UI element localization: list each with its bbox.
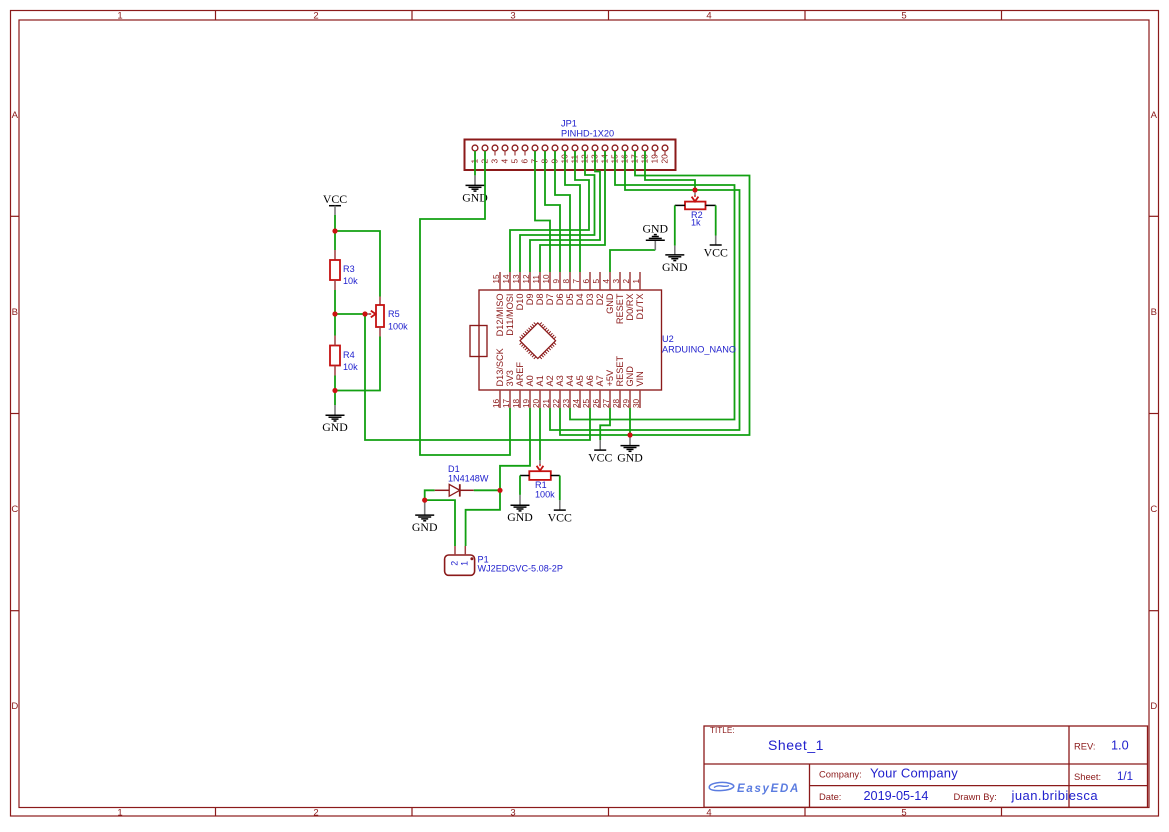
svg-text:6: 6	[582, 279, 591, 284]
svg-text:D1: D1	[448, 464, 460, 474]
svg-text:juan.bribiesca: juan.bribiesca	[1011, 788, 1099, 803]
svg-text:D11/MOSI: D11/MOSI	[505, 294, 515, 336]
U2 pin 18 AREF	[512, 362, 525, 408]
svg-text:A3: A3	[555, 375, 565, 386]
svg-text:8: 8	[562, 279, 571, 284]
connector P1 WJ2EDGVC-5.08-2P	[445, 546, 563, 575]
svg-text:100k: 100k	[535, 490, 555, 500]
svg-text:1N4148W: 1N4148W	[448, 474, 489, 484]
ground GND at R2	[662, 246, 688, 274]
wire VCC to R3	[334, 215, 336, 250]
junction node D R5 wiper	[362, 311, 367, 316]
U2 pin 1 D1/TX	[632, 272, 645, 320]
resistor R5 100k trimmer	[365, 297, 408, 337]
svg-text:D9: D9	[525, 294, 535, 306]
U2 pin 20 A1	[532, 375, 545, 408]
junction node E D1 cathode	[497, 488, 502, 493]
svg-text:Sheet:: Sheet:	[1074, 771, 1101, 782]
svg-text:4: 4	[602, 279, 611, 284]
svg-text:Sheet_1: Sheet_1	[768, 737, 824, 753]
U2 pin 3 RESET	[612, 272, 625, 324]
svg-text:WJ2EDGVC-5.08-2P: WJ2EDGVC-5.08-2P	[478, 564, 563, 574]
svg-text:1: 1	[117, 808, 122, 819]
EasyEDA logo	[709, 782, 800, 795]
wire JP1 pin14 to U2	[540, 151, 605, 272]
svg-text:27: 27	[602, 398, 611, 408]
U2 pin 11 D8	[532, 272, 545, 305]
U2 pin 10 D7	[542, 272, 555, 305]
wire U2 pin4 GND to ground	[610, 250, 655, 272]
svg-text:A: A	[1151, 110, 1158, 121]
JP1 pin 1	[470, 145, 480, 163]
wire R2 left to GND	[674, 205, 676, 245]
svg-text:15: 15	[492, 274, 501, 284]
svg-text:B: B	[1151, 307, 1157, 318]
svg-text:VCC: VCC	[704, 246, 728, 260]
wire R1 right to VCC	[559, 476, 561, 501]
svg-text:R5: R5	[388, 309, 400, 319]
svg-text:D4: D4	[575, 294, 585, 306]
wire R4 to GND	[334, 376, 336, 406]
resistor R1 100k trimmer	[520, 460, 560, 499]
svg-text:20: 20	[660, 154, 670, 164]
svg-text:2: 2	[622, 279, 631, 284]
U2 pin 6 D3	[582, 272, 595, 305]
ground GND at JP1 pin1	[462, 175, 488, 204]
svg-text:R4: R4	[343, 350, 355, 360]
svg-text:19: 19	[522, 398, 531, 408]
svg-text:6: 6	[520, 159, 530, 164]
wire JP1 pin15 to U2 pin23 A4	[570, 151, 735, 420]
wire JP1 pin17 to U2 pin22 A3	[560, 151, 750, 435]
wire JP1 pin11 to U2	[510, 151, 589, 272]
svg-text:10k: 10k	[343, 362, 358, 372]
svg-text:16: 16	[492, 398, 501, 408]
svg-text:3: 3	[490, 159, 500, 164]
svg-text:RESET: RESET	[615, 355, 625, 386]
wire D1 cathode to junction	[474, 489, 500, 491]
svg-text:5: 5	[592, 279, 601, 284]
U2 pin 12 D9	[522, 272, 535, 305]
svg-text:A7: A7	[595, 375, 605, 386]
svg-text:GND: GND	[605, 293, 615, 314]
power VCC top left	[323, 192, 347, 215]
svg-text:D0/RX: D0/RX	[625, 294, 635, 321]
svg-text:D3: D3	[585, 294, 595, 306]
svg-text:2: 2	[313, 808, 318, 819]
U2 pin 4 GND	[602, 272, 615, 314]
wire junction B to R5 wiper	[335, 313, 365, 315]
svg-text:A5: A5	[575, 375, 585, 386]
JP1 pin 17	[630, 145, 640, 163]
svg-text:R1: R1	[535, 480, 547, 490]
svg-text:2: 2	[313, 10, 318, 21]
U2 pin 22 A3	[552, 375, 565, 408]
U2 pin 30 VIN	[632, 371, 645, 408]
JP1 pin 19	[650, 145, 660, 163]
JP1 pin 11	[570, 145, 580, 163]
svg-text:3V3: 3V3	[505, 370, 515, 386]
ground GND at D1	[412, 500, 438, 534]
svg-text:9: 9	[552, 279, 561, 284]
wire JP1 pin10 to U2	[565, 151, 580, 272]
svg-text:5: 5	[510, 159, 520, 164]
svg-text:5: 5	[901, 10, 906, 21]
U2 chip diamond glyph	[520, 323, 556, 359]
svg-text:AREF: AREF	[515, 362, 525, 387]
JP1 pin 2	[480, 145, 490, 163]
wire R5 bottom to junction C	[335, 337, 380, 391]
JP1 pin 20	[660, 145, 670, 163]
svg-text:4: 4	[500, 159, 510, 164]
svg-text:18: 18	[512, 398, 521, 408]
svg-text:14: 14	[502, 274, 511, 284]
power VCC below U2	[588, 440, 612, 465]
svg-text:10k: 10k	[343, 276, 358, 286]
svg-text:U2: U2	[662, 334, 674, 344]
svg-text:C: C	[11, 504, 18, 515]
svg-text:D7: D7	[545, 294, 555, 306]
svg-text:GND: GND	[662, 260, 688, 274]
junction node B	[332, 311, 337, 316]
svg-text:D2: D2	[595, 294, 605, 306]
svg-text:D1/TX: D1/TX	[635, 294, 645, 320]
U2 pin 14 D11/MOSI	[502, 272, 515, 336]
svg-text:VCC: VCC	[588, 451, 612, 465]
svg-text:VCC: VCC	[548, 511, 572, 525]
U2 pin 16 D13/SCK	[492, 347, 505, 408]
svg-text:10: 10	[542, 274, 551, 284]
junction node A	[332, 228, 337, 233]
U2 pin 13 D10	[512, 272, 525, 310]
JP1 pin 4	[500, 145, 510, 163]
svg-text:A: A	[12, 110, 19, 121]
svg-text:D12/MISO: D12/MISO	[495, 294, 505, 337]
svg-text:2019-05-14: 2019-05-14	[864, 789, 929, 803]
svg-text:GND: GND	[322, 420, 348, 434]
svg-text:17: 17	[502, 398, 511, 408]
JP1 pin 8	[540, 145, 550, 163]
JP1 pin 12	[580, 145, 590, 163]
U2 pin 29 GND	[622, 366, 635, 408]
U2 pin 21 A2	[542, 375, 555, 408]
svg-text:13: 13	[512, 274, 521, 284]
wire U2 pin19 A0 to D1 junction	[500, 408, 530, 490]
svg-text:12: 12	[522, 274, 531, 284]
svg-text:1: 1	[117, 10, 122, 21]
svg-text:GND: GND	[643, 221, 669, 235]
svg-text:D10: D10	[515, 294, 525, 311]
svg-text:2: 2	[449, 561, 459, 566]
U2 pin 27 +5V	[602, 369, 615, 408]
resistor R4 10k	[330, 336, 358, 376]
JP1 pin 15	[610, 145, 620, 163]
svg-text:B: B	[12, 307, 18, 318]
ground GND at R1	[507, 495, 533, 524]
JP1 pin 10	[560, 145, 570, 163]
svg-text:D8: D8	[535, 294, 545, 306]
wire U2 pin20 A1 to R1 wiper	[539, 408, 541, 460]
svg-text:4: 4	[706, 808, 711, 819]
wire JP1 pin9 to U2	[555, 151, 570, 272]
svg-text:A6: A6	[585, 375, 595, 386]
svg-text:28: 28	[612, 398, 621, 408]
svg-text:R3: R3	[343, 264, 355, 274]
svg-text:1/1: 1/1	[1117, 771, 1133, 783]
svg-text:PINHD-1X20: PINHD-1X20	[561, 129, 614, 139]
svg-text:24: 24	[572, 398, 581, 408]
svg-text:29: 29	[622, 398, 631, 408]
wire JP1 pin1 to GND	[474, 151, 476, 175]
JP1 pin 14	[600, 145, 610, 163]
JP1 pin 16	[620, 145, 630, 163]
svg-text:23: 23	[562, 398, 571, 408]
wire JP1 pin16 to R2 wiper and U2 pin21 A2	[550, 151, 740, 430]
U2 pin 2 D0/RX	[622, 272, 635, 321]
svg-text:1: 1	[460, 561, 470, 566]
wire JP1 pin7 to U2	[535, 151, 550, 272]
svg-text:A1: A1	[535, 375, 545, 386]
wire junction A to R5 top	[335, 231, 380, 297]
svg-text:1k: 1k	[691, 218, 701, 228]
wire R1 left to GND	[519, 476, 521, 495]
svg-text:Company:: Company:	[819, 769, 862, 780]
svg-text:D: D	[11, 701, 18, 712]
wire JP1 pin12 to U2	[520, 151, 595, 272]
JP1 pin 5	[510, 145, 520, 163]
svg-text:Drawn By:: Drawn By:	[954, 791, 997, 802]
svg-text:3: 3	[510, 808, 515, 819]
svg-text:REV:: REV:	[1074, 741, 1096, 752]
svg-text:A0: A0	[525, 375, 535, 386]
U2 pin 28 RESET	[612, 355, 625, 408]
U2 pin 19 A0	[522, 375, 535, 408]
svg-text:21: 21	[542, 398, 551, 408]
svg-text:C: C	[1150, 504, 1157, 515]
svg-text:5: 5	[901, 808, 906, 819]
svg-text:VCC: VCC	[323, 192, 347, 206]
JP1 pin 9	[550, 145, 560, 163]
svg-text:EasyEDA: EasyEDA	[737, 783, 800, 795]
svg-text:TITLE:: TITLE:	[710, 726, 735, 735]
U2 pin 25 A6	[582, 375, 595, 408]
JP1 pin 7	[530, 145, 540, 163]
ground GND flipped at U2 pin4	[643, 221, 669, 250]
svg-text:1.0: 1.0	[1111, 739, 1129, 753]
U2 pin 9 D6	[552, 272, 565, 305]
svg-text:20: 20	[532, 398, 541, 408]
U2 pin 26 A7	[592, 375, 605, 408]
svg-text:3: 3	[612, 279, 621, 284]
wire junction D to U2 pin25 A6	[365, 314, 590, 440]
svg-text:1: 1	[632, 279, 641, 284]
svg-text:A2: A2	[545, 375, 555, 386]
wire JP1 pin2 to U2 pin17 3V3	[420, 151, 510, 455]
svg-text:D5: D5	[565, 294, 575, 306]
svg-text:100k: 100k	[388, 322, 408, 332]
svg-text:3: 3	[510, 10, 515, 21]
JP1 pin 13	[590, 145, 600, 163]
junction node C	[332, 388, 337, 393]
svg-text:GND: GND	[507, 510, 533, 524]
svg-text:+5V: +5V	[605, 369, 615, 386]
wire junction F to P1 pin2	[425, 500, 455, 546]
svg-text:D: D	[1150, 701, 1157, 712]
svg-text:A4: A4	[565, 375, 575, 386]
svg-text:4: 4	[706, 10, 711, 21]
JP1 pin 3	[490, 145, 500, 163]
svg-text:RESET: RESET	[615, 293, 625, 324]
wire R2 right to VCC	[715, 205, 717, 235]
svg-text:VIN: VIN	[635, 371, 645, 386]
wire junction E to P1 pin1	[466, 490, 500, 546]
wire U2 pin27 +5V to VCC	[600, 408, 610, 440]
U2 pin 23 A4	[562, 375, 575, 408]
ground GND bottom left	[322, 405, 348, 434]
wire U2 pin29 GND to ground junction	[629, 408, 631, 435]
wire D1 anode	[425, 490, 435, 500]
svg-text:19: 19	[650, 154, 660, 164]
U2 pin 17 3V3	[502, 370, 515, 408]
svg-text:D13/SCK: D13/SCK	[495, 347, 505, 386]
ground GND below U2	[617, 437, 643, 465]
JP1 pin 18	[640, 145, 650, 163]
junction node R2 wiper	[692, 187, 697, 192]
U2 pin 7 D4	[572, 272, 585, 305]
connector JP1 PINHD-1X20	[465, 119, 676, 171]
svg-text:Your Company: Your Company	[870, 766, 958, 781]
wire JP1 pin8 to U2	[545, 151, 560, 272]
title block	[704, 726, 1148, 807]
resistor R2 1k trimmer	[675, 193, 716, 228]
power VCC at R2	[704, 236, 728, 260]
junction node GND below U2	[627, 432, 632, 437]
svg-text:26: 26	[592, 398, 601, 408]
U2 pin 8 D5	[562, 272, 575, 305]
svg-text:GND: GND	[412, 520, 438, 534]
IC U2 ARDUINO_NANO body	[470, 290, 736, 390]
wire JP1 pin13 to U2	[530, 151, 600, 272]
svg-text:Date:: Date:	[819, 791, 841, 802]
wire JP1 pin18 to R2 wiper junction	[645, 151, 695, 190]
svg-text:30: 30	[632, 398, 641, 408]
svg-text:25: 25	[582, 398, 591, 408]
svg-text:7: 7	[572, 279, 581, 284]
junction node F D1 anode	[422, 498, 427, 503]
svg-text:GND: GND	[617, 451, 643, 465]
svg-text:ARDUINO_NANO: ARDUINO_NANO	[662, 345, 736, 355]
diode D1 1N4148W	[435, 464, 489, 497]
svg-text:D6: D6	[555, 294, 565, 306]
U2 pin 24 A5	[572, 375, 585, 408]
U2 pin 5 D2	[592, 272, 605, 305]
U2 pin 15 D12/MISO	[492, 272, 505, 336]
resistor R3 10k	[330, 250, 358, 290]
wire R3 to R4	[334, 290, 336, 336]
svg-text:22: 22	[552, 398, 561, 408]
JP1 pin 6	[520, 145, 530, 163]
power VCC at R1	[548, 500, 572, 524]
svg-text:JP1: JP1	[561, 119, 577, 129]
svg-text:GND: GND	[625, 366, 635, 387]
svg-text:11: 11	[532, 275, 541, 284]
